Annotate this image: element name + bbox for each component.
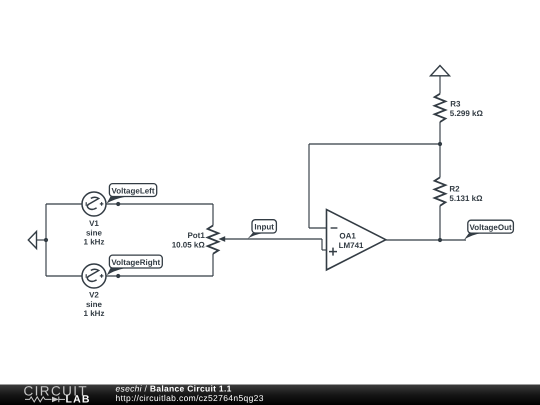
node name flag VoltageLeft	[107, 184, 157, 204]
svg-text:sine: sine	[86, 300, 103, 309]
node VoltageLeft junction	[116, 202, 120, 206]
svg-text:5.131 kΩ: 5.131 kΩ	[449, 194, 483, 203]
svg-text:V2: V2	[89, 291, 99, 300]
svg-text:5.299 kΩ: 5.299 kΩ	[450, 109, 484, 118]
node feedback junction	[438, 142, 442, 146]
node VoltageRight junction	[116, 274, 120, 278]
wire	[439, 144, 441, 177]
wire	[106, 275, 213, 277]
wire feedback horizontal	[309, 143, 440, 145]
voltage source V2	[82, 264, 106, 288]
node name flag Input	[248, 220, 277, 239]
svg-text:OA1: OA1	[339, 232, 356, 241]
logo diode	[52, 397, 59, 403]
svg-text:VoltageOut: VoltageOut	[470, 223, 512, 232]
wire wiper to op-amp	[224, 238, 322, 240]
svg-text:1 kHz: 1 kHz	[84, 238, 105, 247]
svg-text:sine: sine	[86, 228, 103, 237]
footer bar	[0, 385, 540, 405]
node output junction	[438, 238, 442, 242]
potentiometer wiper arrow	[219, 236, 226, 242]
node name flag VoltageRight	[107, 255, 163, 275]
svg-text:LAB: LAB	[66, 394, 91, 405]
svg-text:Input: Input	[254, 223, 274, 232]
wire	[212, 204, 214, 226]
wire feedback vertical	[308, 144, 310, 228]
wire	[106, 203, 213, 205]
svg-text:VoltageRight: VoltageRight	[111, 258, 160, 267]
wire	[46, 203, 82, 205]
wire	[46, 275, 82, 277]
op-amp plus sign	[329, 251, 337, 253]
wire	[439, 122, 441, 144]
svg-text:R3: R3	[450, 99, 461, 108]
op-amp OA1	[327, 210, 386, 270]
resistor R3	[435, 94, 446, 122]
wire op-amp inverting input	[309, 227, 327, 229]
voltage source V1	[82, 192, 106, 216]
potentiometer Pot1	[208, 226, 219, 254]
power supply arrow VCC	[431, 66, 450, 76]
svg-text:Pot1: Pot1	[187, 231, 205, 240]
node name flag VoltageOut	[464, 220, 513, 239]
op-amp minus sign	[331, 227, 338, 229]
svg-text:VoltageLeft: VoltageLeft	[112, 186, 155, 195]
svg-text:R2: R2	[449, 184, 460, 193]
svg-text:10.05 kΩ: 10.05 kΩ	[172, 241, 206, 250]
wire	[321, 239, 323, 250]
wire	[212, 254, 214, 276]
svg-text:1 kHz: 1 kHz	[84, 309, 105, 318]
wire	[45, 204, 47, 276]
wire	[439, 206, 441, 240]
svg-text:LM741: LM741	[339, 241, 364, 250]
svg-text:V1: V1	[89, 219, 99, 228]
wire	[439, 76, 441, 94]
wire	[322, 249, 327, 251]
node ground junction	[44, 238, 48, 242]
resistor R2	[435, 177, 446, 205]
wire op-amp output	[386, 239, 466, 241]
svg-text:http://circuitlab.com/cz52764n: http://circuitlab.com/cz52764n5qg23	[116, 393, 264, 403]
ground	[28, 232, 46, 249]
logo schematic doodle	[25, 397, 65, 403]
